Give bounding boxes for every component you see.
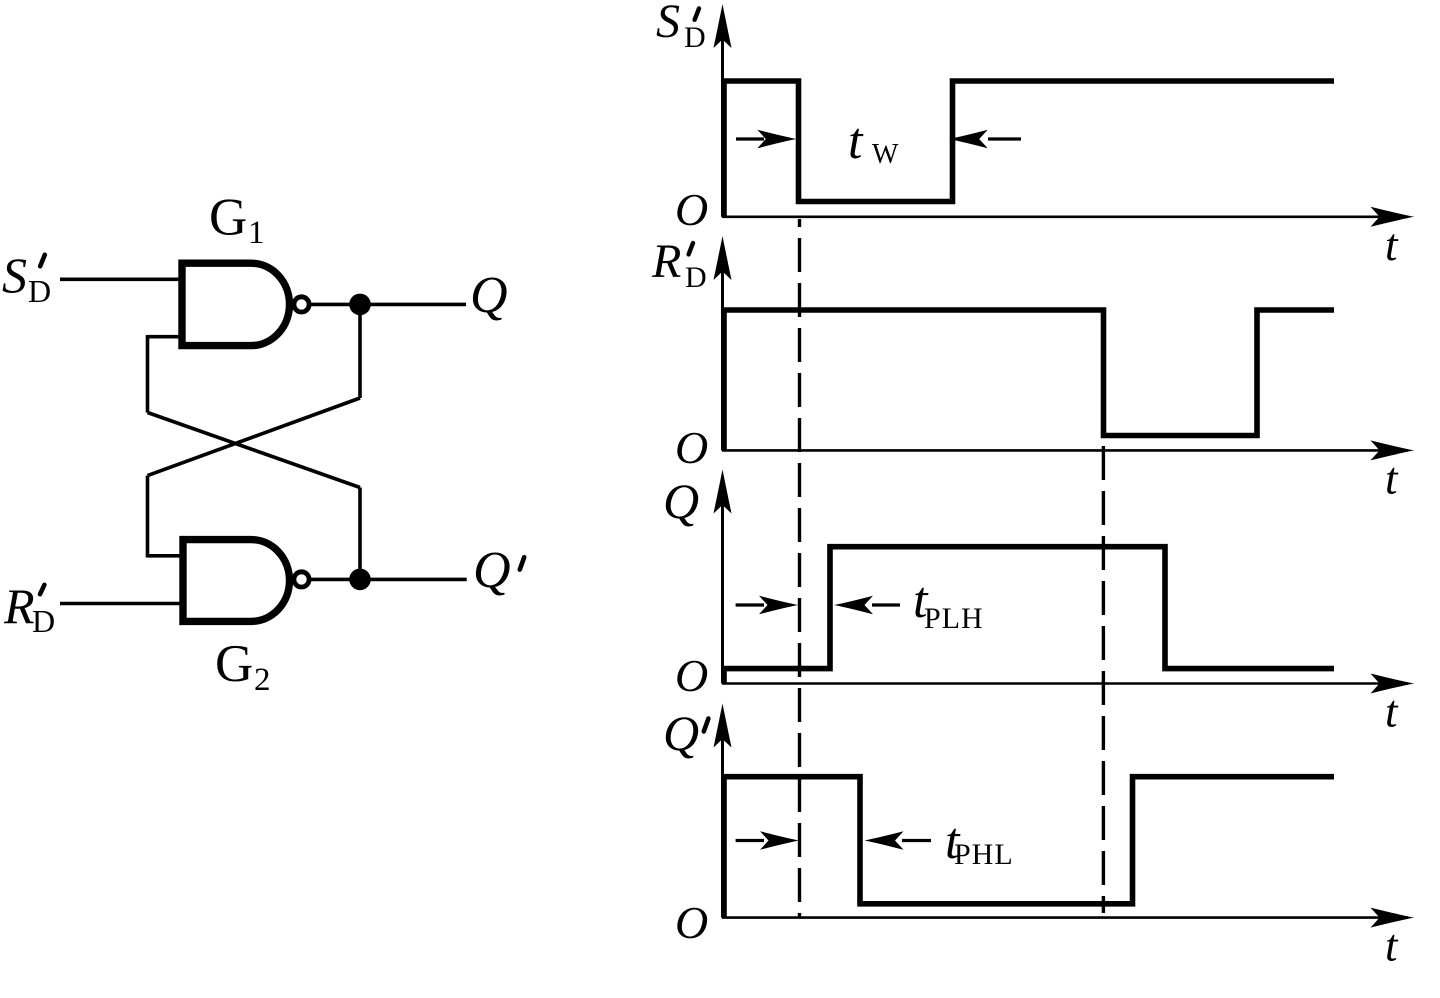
svg-text:t: t — [1385, 921, 1399, 971]
svg-text:G: G — [209, 189, 247, 247]
arrow right tPLH — [872, 603, 900, 606]
wire vertical to G2 upper input — [146, 476, 150, 558]
axis Y 2 — [721, 270, 724, 450]
axis Y 3 — [721, 504, 724, 684]
axis X t2 — [722, 449, 1408, 452]
svg-text:Q: Q — [473, 542, 511, 599]
waveform Q — [724, 547, 1334, 684]
wire vertical down to Q' node — [358, 488, 362, 580]
arrow right tW — [988, 137, 1021, 140]
axis X t4 — [722, 916, 1408, 919]
svg-text:t: t — [848, 113, 864, 170]
svg-text:1: 1 — [248, 215, 265, 251]
svg-text:O: O — [675, 897, 708, 948]
svg-text:D: D — [28, 273, 51, 309]
arrow left tPHL — [736, 839, 764, 842]
NAND gate G1 body — [182, 263, 290, 345]
svg-text:D: D — [685, 261, 707, 294]
wire G2 upper input stub — [148, 554, 184, 558]
wire S'D input to G1 — [60, 277, 182, 281]
waveform Q' — [724, 777, 1334, 918]
svg-text:O: O — [675, 422, 708, 473]
dashed timing reference line 1 — [798, 219, 801, 918]
svg-text:Q: Q — [663, 473, 699, 529]
svg-text:D: D — [684, 21, 706, 54]
arrow left tW — [736, 137, 764, 140]
wire vertical from Q node — [358, 304, 362, 398]
svg-text:O: O — [675, 650, 708, 701]
NAND gate G2 body — [183, 540, 290, 622]
junction node Q' — [349, 569, 371, 591]
svg-text:O: O — [675, 184, 708, 235]
svg-text:Q: Q — [470, 267, 508, 324]
svg-text:Q: Q — [663, 705, 699, 761]
axis X t3 — [722, 682, 1408, 685]
arrow right tPHL — [902, 839, 931, 842]
wire diagonal Q feedback to G2 — [148, 398, 361, 476]
wire Q output — [310, 303, 466, 307]
wire diagonal Q' feedback to G1 — [148, 413, 361, 488]
svg-text:G: G — [215, 635, 253, 693]
wire vertical from G1 lower input — [146, 335, 150, 413]
axis X t1 — [722, 216, 1408, 219]
svg-text:2: 2 — [254, 662, 271, 698]
svg-text:PLH: PLH — [924, 602, 984, 635]
dashed timing reference line 2 — [1102, 446, 1105, 913]
axis Y 4 — [721, 738, 724, 918]
svg-text:R: R — [3, 578, 35, 634]
NAND gate G2 bubble — [294, 572, 309, 587]
axis Y 1 — [721, 38, 724, 217]
arrow left tPLH — [736, 603, 764, 606]
junction node Q — [349, 294, 371, 316]
wire R'D input to G2 — [60, 602, 183, 606]
svg-text:R: R — [651, 235, 681, 288]
waveform R'D — [724, 310, 1334, 450]
NAND gate G1 bubble — [294, 297, 309, 312]
wire Q' output — [310, 578, 467, 582]
waveform S'D — [724, 81, 1334, 217]
svg-text:t: t — [1385, 220, 1399, 270]
svg-text:W: W — [872, 139, 899, 170]
svg-text:PHL: PHL — [954, 838, 1014, 871]
svg-text:t: t — [1385, 687, 1399, 737]
wire G1 lower input stub — [148, 335, 183, 339]
svg-text:S: S — [2, 247, 27, 303]
svg-text:S: S — [656, 0, 680, 48]
svg-text:t: t — [1385, 453, 1399, 503]
svg-text:D: D — [32, 603, 55, 639]
